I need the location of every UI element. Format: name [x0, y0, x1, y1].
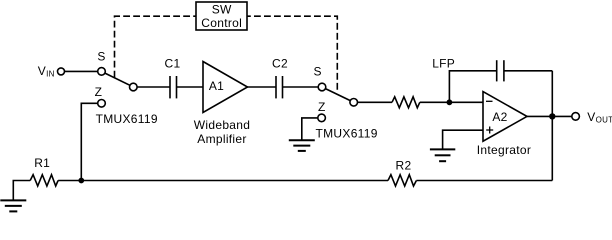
wire bottom left to ground — [13, 181, 30, 201]
switch arm (left) — [105, 73, 130, 85]
pole (right switch common) — [350, 99, 358, 107]
capacitor C2 — [272, 57, 288, 99]
node VIN terminal — [58, 68, 65, 75]
junction node at output — [549, 113, 555, 119]
wire R1 to R2 along bottom — [58, 180, 388, 182]
wire R2 to output column — [416, 180, 552, 182]
svg-text:Z: Z — [95, 85, 103, 99]
op-amp A2 integrator — [477, 92, 531, 158]
svg-text:Control: Control — [201, 16, 242, 30]
node VOUT terminal — [572, 113, 580, 121]
ground (right switch Z) — [289, 140, 315, 151]
svg-text:Wideband: Wideband — [194, 118, 250, 132]
junction node at LFP tap — [447, 99, 453, 105]
svg-text:VIN: VIN — [38, 64, 55, 79]
wire feedback up from inverting node — [449, 71, 496, 103]
svg-text:Amplifier: Amplifier — [197, 132, 246, 146]
svg-text:Z: Z — [318, 100, 326, 114]
wire output column (feedback top to bottom feedback) — [551, 71, 553, 181]
pin Z (left switch) — [98, 100, 106, 108]
wire A2 output to VOUT — [527, 115, 572, 117]
svg-text:C2: C2 — [272, 57, 288, 71]
pin S (left switch) — [98, 68, 106, 76]
svg-text:R2: R2 — [396, 159, 412, 173]
resistor (series, unlabeled) — [392, 97, 420, 108]
resistor R1 — [30, 156, 58, 186]
svg-text:S: S — [97, 50, 105, 64]
pin Z (right switch) — [318, 114, 326, 122]
capacitor CLFP feedback — [497, 60, 504, 81]
SW Control block — [196, 2, 247, 30]
wire feedback cap to output column — [504, 70, 552, 72]
svg-text:LFP: LFP — [432, 57, 455, 71]
pole (left switch common) — [130, 83, 138, 91]
svg-text:SW: SW — [212, 3, 232, 17]
dashed control wire to left switch — [115, 16, 197, 77]
pin S (right switch) — [318, 83, 326, 91]
wire C2 to right switch S — [283, 86, 319, 88]
dashed control wire to right switch — [247, 16, 337, 90]
wire C1 to A1 — [177, 86, 204, 88]
wire pole to C1 — [137, 86, 170, 88]
wire right pole to series resistor — [358, 101, 393, 103]
svg-text:S: S — [313, 64, 321, 78]
svg-text:A1: A1 — [209, 79, 224, 93]
svg-text:A2: A2 — [492, 110, 507, 124]
svg-text:VOUT: VOUT — [587, 110, 612, 125]
wire A1 to C2 — [248, 86, 277, 88]
switch U1 TMUX6119 (left) — [95, 50, 158, 127]
svg-text:C1: C1 — [165, 57, 181, 71]
ground (bottom left) — [0, 200, 26, 211]
switch U2 TMUX6119 (right) — [313, 64, 377, 140]
svg-text:R1: R1 — [34, 156, 50, 170]
ground (A2 + input) — [430, 149, 455, 161]
svg-text:TMUX6119: TMUX6119 — [316, 126, 378, 140]
capacitor C1 — [165, 57, 181, 99]
wire Z to bottom node — [81, 103, 97, 180]
wire resistor to A2 inverting input, node LFP tap — [420, 101, 483, 103]
op-amp A1 wideband amplifier — [194, 62, 250, 146]
wire VIN to switch S — [65, 70, 98, 72]
resistor R2 — [388, 159, 416, 186]
switch arm (right) — [325, 89, 350, 101]
svg-text:Integrator: Integrator — [477, 143, 531, 157]
junction node bottom (Z wire joins) — [78, 178, 84, 184]
svg-text:TMUX6119: TMUX6119 — [96, 112, 158, 126]
wire A2 non-inverting input to ground — [443, 130, 483, 149]
wire right Z to ground — [302, 118, 318, 140]
